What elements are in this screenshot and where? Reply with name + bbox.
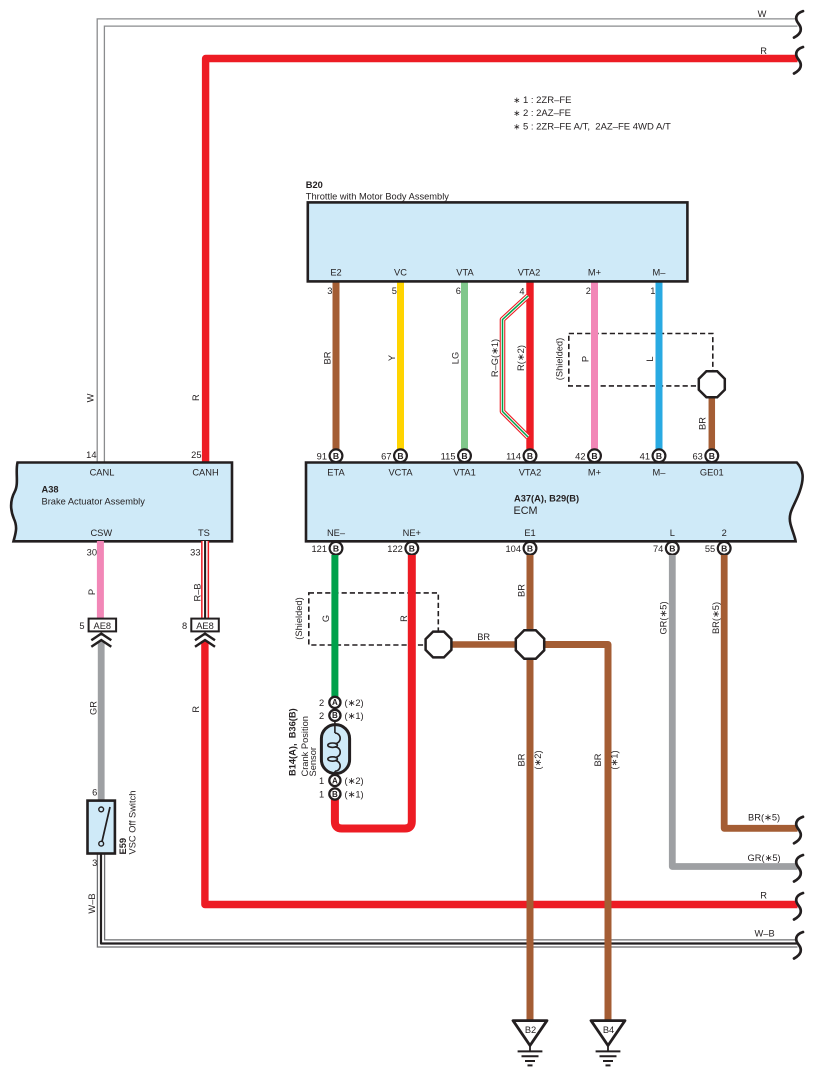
svg-text:115: 115 <box>441 451 456 461</box>
vertical labels near sensor wires <box>294 584 620 770</box>
svg-text:55: 55 <box>705 544 715 554</box>
svg-text:ECM: ECM <box>514 505 538 517</box>
svg-text:CSW: CSW <box>90 528 112 538</box>
svg-text:BR(∗5): BR(∗5) <box>748 813 780 823</box>
svg-text:AE8: AE8 <box>196 621 214 631</box>
svg-text:2: 2 <box>319 698 324 708</box>
svg-text:∗ 5 : 2ZR–FE A/T, 2AZ–FE 4WD: ∗ 5 : 2ZR–FE A/T, 2AZ–FE 4WD A/T <box>513 122 671 133</box>
svg-text:B: B <box>332 711 338 720</box>
shield ground octagon (sensor drain) <box>426 632 452 658</box>
svg-text:(∗2): (∗2) <box>345 776 364 786</box>
svg-text:5: 5 <box>79 621 84 631</box>
A38 pin numbers <box>86 450 201 557</box>
svg-text:74: 74 <box>653 544 663 554</box>
svg-text:2: 2 <box>722 528 727 538</box>
svg-text:E1: E1 <box>524 528 535 538</box>
svg-text:VSC Off Switch: VSC Off Switch <box>128 791 138 855</box>
svg-text:(∗2): (∗2) <box>345 698 364 708</box>
wire BR(*1) from junction right and down to ground B4 <box>542 645 608 1022</box>
wire R from AE8 down and right to edge <box>205 641 798 905</box>
wire BR from B20 pin3 E2 <box>333 280 340 449</box>
connector 5 AE8 <box>79 619 116 647</box>
svg-text:(∗1): (∗1) <box>345 711 364 721</box>
sensor coil <box>328 722 340 777</box>
B circle connectors row 2 with pin numbers <box>311 542 730 555</box>
svg-text:Sensor: Sensor <box>308 747 318 776</box>
dashed shield box around wire L (M-) <box>569 334 713 386</box>
svg-text:R: R <box>399 615 409 622</box>
svg-text:B: B <box>333 451 339 461</box>
vertical labels P and R-B <box>87 583 202 601</box>
ground B2 <box>513 1021 547 1066</box>
svg-text:LG: LG <box>451 352 461 364</box>
svg-text:25: 25 <box>191 450 201 460</box>
svg-text:L: L <box>645 356 655 361</box>
svg-text:Throttle with Motor Body Assem: Throttle with Motor Body Assembly <box>306 191 449 201</box>
svg-text:VC: VC <box>394 268 407 278</box>
svg-text:B2: B2 <box>525 1025 536 1035</box>
svg-text:E2: E2 <box>330 268 341 278</box>
wire G from ECM 121 NE- to sensor <box>331 555 338 698</box>
svg-text:E59: E59 <box>118 838 128 855</box>
svg-text:3: 3 <box>327 286 332 296</box>
svg-text:104: 104 <box>505 544 521 554</box>
right edge labels <box>748 9 781 939</box>
svg-text:A37(A), B29(B): A37(A), B29(B) <box>514 494 579 504</box>
ground B4 <box>591 1021 625 1066</box>
svg-text:(Shielded): (Shielded) <box>555 338 565 380</box>
wire L from B20 pin1 M- <box>656 280 663 449</box>
legend notes <box>513 95 671 133</box>
svg-text:2: 2 <box>319 711 324 721</box>
wire BR from ECM 104 E1 down to junction <box>527 555 534 633</box>
svg-text:BR: BR <box>593 753 603 766</box>
wire GR from AE8 down to E59 switch <box>98 641 105 801</box>
svg-text:122: 122 <box>387 544 403 554</box>
svg-text:M–: M– <box>653 268 667 278</box>
svg-text:L: L <box>670 528 675 538</box>
wire BR(*5) from ECM 55 pin2 down and right to edge <box>724 555 797 828</box>
svg-text:B4: B4 <box>603 1025 614 1035</box>
svg-text:W–B: W–B <box>87 893 97 913</box>
B20 connector box <box>308 202 688 281</box>
svg-text:30: 30 <box>87 547 97 557</box>
wire LG from B20 pin6 VTA <box>461 280 468 449</box>
svg-text:A: A <box>332 698 338 707</box>
wire W (CANL to top right), white wire drawn as two thin outlines <box>97 19 797 463</box>
svg-text:M+: M+ <box>588 467 601 477</box>
svg-text:R–B: R–B <box>192 583 202 601</box>
svg-text:GR(∗5): GR(∗5) <box>748 853 781 863</box>
svg-text:R: R <box>191 394 201 401</box>
svg-text:(∗2): (∗2) <box>533 750 543 769</box>
svg-text:Y: Y <box>387 355 397 361</box>
dashed shield box around G and R sensor wires <box>309 593 439 645</box>
break symbols at right edge <box>794 11 803 958</box>
svg-text:2: 2 <box>586 286 591 296</box>
B20 terminal names <box>330 268 666 278</box>
B20 title <box>306 180 449 201</box>
svg-text:B: B <box>656 451 662 461</box>
svg-text:B: B <box>591 451 597 461</box>
svg-text:Brake Actuator Assembly: Brake Actuator Assembly <box>42 496 146 506</box>
svg-text:B: B <box>527 451 533 461</box>
svg-text:14: 14 <box>86 450 96 460</box>
wire BR shield drain to GE01 <box>709 395 716 449</box>
svg-text:91: 91 <box>317 451 327 461</box>
svg-text:(Shielded): (Shielded) <box>294 597 304 639</box>
svg-text:CANH: CANH <box>192 467 218 477</box>
svg-text:∗ 2 : 2AZ–FE: ∗ 2 : 2AZ–FE <box>513 108 571 119</box>
svg-text:W: W <box>86 393 96 402</box>
svg-text:TS: TS <box>198 528 210 538</box>
sensor body <box>321 725 349 774</box>
svg-text:B: B <box>332 790 338 799</box>
svg-text:67: 67 <box>381 451 391 461</box>
wire R(*2) from B20 pin4 VTA2 <box>526 280 533 449</box>
svg-text:P: P <box>87 589 97 595</box>
svg-text:B14(A), B36(B): B14(A), B36(B) <box>287 708 297 776</box>
svg-text:BR: BR <box>477 632 490 642</box>
svg-text:P: P <box>581 356 591 362</box>
svg-text:VCTA: VCTA <box>388 467 413 477</box>
svg-text:B: B <box>527 543 533 553</box>
vertical wire color labels (B20 to ECM) <box>323 338 708 430</box>
svg-text:1: 1 <box>319 776 324 786</box>
svg-text:R–G(∗1): R–G(∗1) <box>490 339 500 377</box>
wire R-B from A38 TS down to AE8 <box>201 541 209 619</box>
wire R-G(*1) bowed branch <box>503 296 529 437</box>
svg-text:GR(∗5): GR(∗5) <box>659 601 669 634</box>
svg-text:63: 63 <box>692 451 702 461</box>
svg-text:B: B <box>669 543 675 553</box>
svg-text:B: B <box>721 543 727 553</box>
svg-text:114: 114 <box>506 451 521 461</box>
ECM bottom terminal names <box>327 528 727 538</box>
labels GR(*5) and BR(*5) <box>659 601 721 634</box>
svg-text:8: 8 <box>182 621 187 631</box>
wire R (CANH up and to top right), thick red <box>206 59 798 463</box>
svg-text:GR: GR <box>88 701 98 715</box>
svg-text:W–B: W–B <box>755 929 775 939</box>
svg-text:(∗1): (∗1) <box>345 790 364 800</box>
wire GR(*5) from ECM 74 L down and right to edge <box>672 555 797 867</box>
svg-text:W: W <box>758 9 767 19</box>
svg-text:B: B <box>397 451 403 461</box>
svg-text:B: B <box>333 543 339 553</box>
svg-text:B: B <box>409 543 415 553</box>
junction octagon at E1 <box>516 630 544 658</box>
wire Y from B20 pin5 VC <box>397 280 404 449</box>
svg-text:3: 3 <box>92 858 97 868</box>
svg-text:VTA2: VTA2 <box>518 268 541 278</box>
left vertical labels W and R <box>86 393 201 402</box>
svg-text:G: G <box>321 615 331 622</box>
svg-text:R: R <box>760 46 767 56</box>
svg-text:NE+: NE+ <box>403 528 421 538</box>
svg-text:5: 5 <box>392 286 397 296</box>
svg-text:B20: B20 <box>306 180 323 190</box>
svg-text:6: 6 <box>456 286 461 296</box>
B20 pin numbers <box>327 286 655 297</box>
wire BR between shield octagon and junction <box>448 641 518 648</box>
svg-text:VTA1: VTA1 <box>453 467 476 477</box>
svg-text:BR: BR <box>323 351 333 364</box>
svg-text:GE01: GE01 <box>700 467 724 477</box>
wire P from A38 CSW down to AE8 <box>97 541 104 619</box>
svg-text:M–: M– <box>653 467 667 477</box>
B circle connectors row 1 with pin numbers <box>317 449 719 462</box>
wire P from B20 pin2 M+ <box>591 280 598 449</box>
svg-text:R(∗2): R(∗2) <box>516 345 526 371</box>
svg-text:A38: A38 <box>42 485 59 495</box>
svg-text:121: 121 <box>311 544 327 554</box>
svg-text:B: B <box>709 451 715 461</box>
svg-text:1: 1 <box>319 790 324 800</box>
svg-text:M+: M+ <box>588 268 601 278</box>
svg-text:CANL: CANL <box>90 467 115 477</box>
sensor name labels <box>287 708 318 776</box>
svg-text:1: 1 <box>650 286 655 296</box>
svg-text:BR(∗5): BR(∗5) <box>711 602 721 634</box>
svg-text:B: B <box>461 451 467 461</box>
svg-text:6: 6 <box>92 787 97 797</box>
svg-text:VTA2: VTA2 <box>519 467 542 477</box>
svg-text:ETA: ETA <box>327 467 345 477</box>
svg-text:∗ 1 : 2ZR–FE: ∗ 1 : 2ZR–FE <box>513 95 571 106</box>
A38 Brake Actuator Assembly box with torn left edge <box>11 463 232 542</box>
svg-text:VTA: VTA <box>456 268 474 278</box>
svg-text:R: R <box>191 706 201 713</box>
wire W-B from E59 pin3 down and right to edge <box>97 855 797 948</box>
crank position sensor B14(A),B36(B) <box>287 697 363 800</box>
svg-text:R: R <box>760 891 767 901</box>
svg-text:NE–: NE– <box>327 528 346 538</box>
svg-text:4: 4 <box>519 287 524 297</box>
svg-text:(∗1): (∗1) <box>610 750 620 769</box>
svg-text:33: 33 <box>190 547 200 557</box>
svg-text:BR: BR <box>698 417 708 430</box>
connector 8 AE8 <box>182 619 219 647</box>
svg-text:41: 41 <box>640 451 650 461</box>
shield ground octagon (GE01 drain) <box>699 371 725 397</box>
svg-text:A: A <box>332 776 338 785</box>
ECM box A37(A),B29(B) with torn right edge <box>306 463 803 542</box>
sensor pin circles <box>329 697 340 800</box>
wire BR(*2) from junction down to ground B2 <box>527 656 534 1021</box>
wire R from ECM 122 NE+ down, left, and up to sensor bottom <box>335 555 412 829</box>
svg-text:AE8: AE8 <box>94 621 112 631</box>
switch E59 VSC Off Switch <box>88 787 138 868</box>
ECM top terminal names <box>327 467 723 477</box>
svg-text:42: 42 <box>575 451 585 461</box>
svg-text:BR: BR <box>517 584 527 597</box>
vertical labels GR and R <box>88 701 201 715</box>
svg-text:BR: BR <box>517 753 527 766</box>
